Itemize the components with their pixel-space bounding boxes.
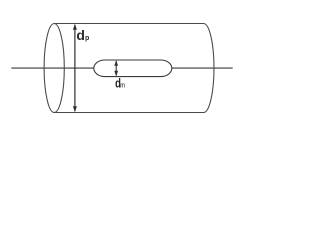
axis line [11,67,232,69]
dimension arrow d_p bottom arrowhead [73,106,77,112]
dimension arrow d_p vertical line [74,25,76,111]
capsule inner rod [94,60,172,77]
dimension arrow d_m top arrowhead [114,60,118,66]
cylinder left face ellipse [44,24,64,113]
dimension arrow d_p top arrowhead [73,24,77,30]
dimension arrow d_m vertical line [115,61,117,76]
dimension arrow d_m bottom arrowhead [114,71,118,77]
svg-text:dp: dp [76,27,89,43]
svg-text:m: m [120,82,125,90]
cylinder body outline [54,24,214,113]
